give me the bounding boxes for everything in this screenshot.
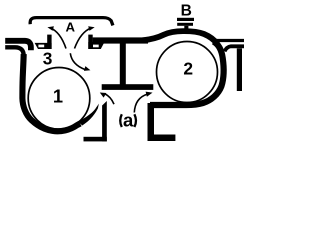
svg-text:3: 3 [43, 49, 53, 69]
svg-text:2: 2 [183, 59, 193, 79]
svg-text:B: B [181, 2, 192, 19]
svg-text:a: a [123, 109, 134, 130]
svg-text:A: A [66, 19, 76, 34]
svg-text:1: 1 [53, 86, 63, 107]
